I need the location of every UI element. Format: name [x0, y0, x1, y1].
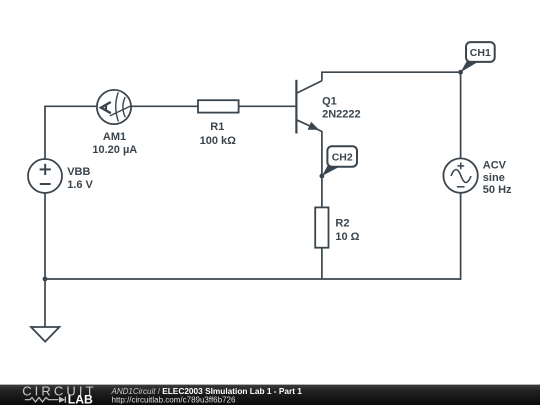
svg-text:10.20 µA: 10.20 µA	[92, 144, 137, 156]
svg-text:sine: sine	[483, 172, 505, 184]
node ground junction	[43, 277, 48, 282]
wire ground stub	[44, 279, 46, 328]
logo CircuitLab	[22, 383, 96, 405]
svg-text:50 Hz: 50 Hz	[483, 184, 512, 196]
label ACV value	[483, 160, 512, 196]
resistor R1	[198, 100, 239, 112]
source ACV	[443, 158, 477, 192]
svg-text:http://circuitlab.com/c789u3ff: http://circuitlab.com/c789u3ff6b726	[112, 395, 236, 404]
svg-text:CH1: CH1	[470, 47, 491, 59]
node CH1 junction	[458, 70, 463, 75]
label R2 value	[335, 217, 359, 243]
svg-text:VBB: VBB	[67, 166, 90, 178]
svg-text:ACV: ACV	[483, 160, 507, 172]
svg-text:2N2222: 2N2222	[322, 109, 361, 121]
svg-text:R2: R2	[335, 217, 349, 229]
label AM1 value	[92, 131, 137, 156]
node CH2 junction	[320, 174, 325, 179]
svg-text:CH2: CH2	[332, 151, 353, 163]
resistor R2	[315, 207, 328, 247]
wire emitter vertical to R2	[321, 131, 323, 208]
wire R2 to bottom	[321, 248, 323, 280]
ground	[31, 327, 59, 342]
probe CH1	[461, 42, 495, 72]
svg-text:10 Ω: 10 Ω	[335, 231, 359, 243]
label Q1 value	[322, 95, 361, 120]
svg-text:1.6 V: 1.6 V	[67, 179, 93, 191]
wire right vertical (CH1 node to ACV to bottom)	[460, 72, 462, 280]
wire left vertical (VBB branch)	[44, 106, 46, 279]
wire bottom horizontal	[44, 278, 461, 280]
voltage source VBB	[28, 159, 62, 193]
svg-text:Q1: Q1	[322, 95, 337, 107]
wire collector to CH1 node (top horizontal)	[322, 72, 461, 81]
svg-text:LAB: LAB	[68, 393, 93, 405]
wire top-left horizontal (VBB to AM1 to R1 to Q1 base)	[44, 105, 296, 107]
ammeter AM1	[97, 90, 131, 124]
svg-text:AM1: AM1	[103, 131, 126, 143]
transistor Q1	[296, 80, 322, 134]
label VBB value	[67, 166, 93, 191]
svg-text:R1: R1	[210, 121, 224, 133]
label R1 value	[200, 121, 237, 147]
probe CH2	[322, 146, 357, 176]
svg-text:100 kΩ: 100 kΩ	[200, 135, 237, 147]
